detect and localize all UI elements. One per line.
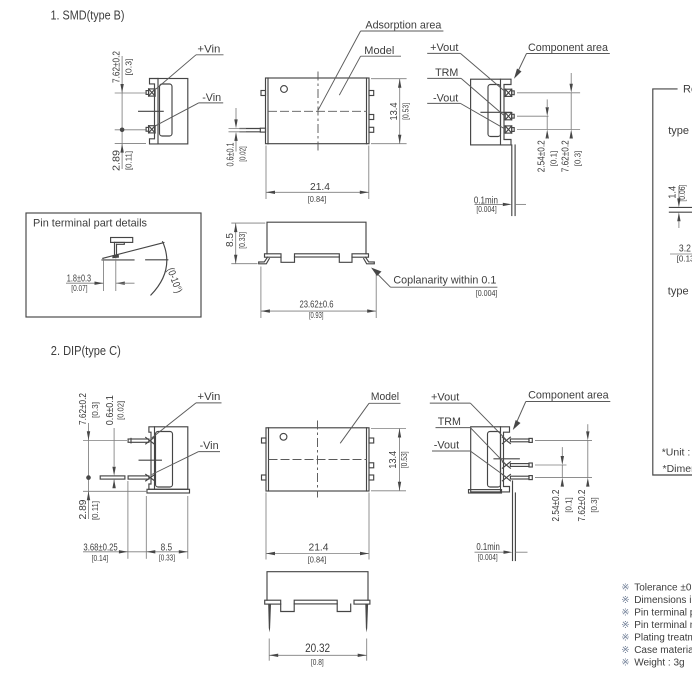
svg-text:13.4: 13.4: [387, 451, 399, 469]
svg-text:[0.004]: [0.004]: [476, 289, 498, 298]
svg-text:type B(SMD): type B(SMD): [668, 125, 692, 137]
svg-text:+Vout: +Vout: [431, 392, 459, 404]
svg-text:*Unit : mm[inch]: *Unit : mm[inch]: [662, 447, 692, 459]
pin under step: [115, 242, 125, 244]
svg-text:+Vout: +Vout: [430, 42, 458, 54]
svg-text:0.6±0.1: 0.6±0.1: [104, 395, 116, 425]
extension line row2: [115, 129, 146, 131]
dimension 0.6±0.1 pin thickness: [104, 395, 125, 488]
svg-text:21.4: 21.4: [310, 181, 330, 193]
SMD output pin 1 (+Vout): [505, 89, 514, 96]
svg-text:type C(DIP): type C(DIP): [668, 286, 692, 298]
recommended pad layout box (cropped at right edge): [653, 84, 692, 476]
svg-text:Recommended pad layout: Recommended pad layout: [683, 84, 692, 96]
left edge pin tabs: [262, 438, 267, 443]
SMD top view body: [266, 78, 370, 144]
right DIP pin: [365, 604, 368, 632]
left edge pin tab row1: [261, 91, 266, 96]
svg-text:[0.14]: [0.14]: [92, 554, 109, 563]
svg-text:[0.11]: [0.11]: [91, 501, 100, 520]
svg-text:[0.1]: [0.1]: [550, 151, 559, 167]
svg-text:-Vin: -Vin: [200, 440, 219, 452]
dimension 21.4 bottom: [266, 493, 369, 565]
dimension 0.6±0.1 pin thickness: [225, 108, 248, 167]
svg-text:1. SMD(type B): 1. SMD(type B): [51, 9, 125, 23]
DIP output pin 3 (-Vout): [502, 474, 532, 480]
svg-text:1.8±0.3: 1.8±0.3: [67, 273, 91, 285]
svg-text:2.54±0.2: 2.54±0.2: [536, 140, 548, 172]
svg-text:Model: Model: [364, 45, 394, 57]
DIP pin 2 (-Vin): [100, 474, 155, 481]
left gull-wing foot: [259, 257, 270, 264]
svg-text:2.89: 2.89: [77, 499, 89, 519]
svg-text:8.5: 8.5: [161, 541, 173, 553]
dimension 13.4 right: [371, 429, 409, 491]
dimension 21.4 bottom: [266, 146, 369, 205]
right flange pad: [354, 600, 370, 604]
center mark: [481, 111, 511, 113]
DIP center mark: [139, 459, 161, 461]
svg-text:[0.3]: [0.3]: [91, 402, 100, 418]
svg-text:0.6±0.1: 0.6±0.1: [225, 142, 237, 166]
svg-text:[0.33]: [0.33]: [238, 232, 247, 249]
dimension 23.62±0.6: [261, 267, 376, 321]
SMD side view (input side) body: [150, 79, 188, 144]
svg-text:[0.02]: [0.02]: [116, 401, 125, 420]
svg-text:-Vout: -Vout: [434, 440, 459, 452]
svg-text:-Vin: -Vin: [202, 92, 221, 104]
svg-text:2. DIP(type C): 2. DIP(type C): [51, 344, 121, 358]
pin1 index circle: [281, 86, 288, 93]
svg-text:[0.84]: [0.84]: [308, 555, 327, 564]
dimension 13.4 right: [371, 79, 411, 144]
DIP pin 1 (+Vin): [128, 437, 154, 444]
svg-text:13.4: 13.4: [388, 102, 400, 120]
pin foot: [112, 255, 119, 259]
svg-text:7.62±0.2: 7.62±0.2: [77, 393, 89, 425]
DIP output pin 1 (+Vout): [502, 437, 532, 443]
label Coplanarity within 0.1: [371, 268, 497, 299]
center mark: [494, 458, 519, 460]
svg-text:+Vin: +Vin: [197, 44, 220, 56]
DIP side view (output side) body: [469, 427, 510, 493]
dimension 7.62±0.2: [576, 424, 599, 521]
dimension line 7.62 / 2.89: [121, 56, 123, 169]
svg-text:※Pin terminal material : Cu: ※Pin terminal material : Cu: [621, 620, 692, 631]
svg-text:2.89: 2.89: [111, 150, 123, 171]
svg-text:0.1min: 0.1min: [476, 541, 500, 553]
left edge pin row2 with stub: [240, 128, 266, 132]
left DIP pin: [268, 604, 271, 632]
svg-text:[0.8]: [0.8]: [311, 658, 324, 667]
SMD output pin 3 (-Vout): [505, 126, 514, 133]
SMD output pin 2 (TRM): [505, 113, 514, 120]
svg-text:*Dimension tolerance: *Dimension tolerance: [663, 463, 692, 475]
extension lines pin rows: [535, 439, 592, 441]
svg-text:[0.3]: [0.3]: [125, 59, 134, 76]
left standoff tab: [281, 604, 295, 612]
svg-text:[0.004]: [0.004]: [476, 205, 496, 214]
pin terminal detail box: [26, 213, 201, 317]
0.1min standoff lines: [474, 145, 526, 216]
svg-text:23.62±0.6: 23.62±0.6: [300, 298, 334, 310]
svg-text:Coplanarity within 0.1: Coplanarity within 0.1: [393, 274, 496, 286]
0.1min standoff lines: [475, 481, 528, 562]
svg-text:7.62±0.2: 7.62±0.2: [560, 140, 572, 172]
svg-text:Component area: Component area: [528, 390, 609, 402]
svg-text:[0.53]: [0.53]: [402, 103, 411, 120]
vertical centerline: [317, 72, 319, 151]
dimension 3.68±0.25 and 8.5 bottom: [83, 481, 188, 563]
right edge pin tabs: [369, 438, 374, 443]
svg-text:Model: Model: [371, 391, 399, 403]
tilted seating line: [103, 243, 164, 259]
pin top plate: [111, 238, 133, 243]
center standoff plate: [295, 254, 340, 257]
svg-text:[0.07]: [0.07]: [71, 284, 87, 293]
dimension 1.8±0.3: [66, 259, 135, 293]
SMD front view body: [267, 222, 366, 254]
pin web: [114, 242, 116, 256]
svg-text:(0-10°): (0-10°): [164, 266, 184, 295]
angle arc 0-10 degrees: [151, 242, 167, 295]
svg-text:2.54±0.2: 2.54±0.2: [550, 489, 562, 521]
extension lines pin rows: [517, 92, 580, 94]
pin1 index circle: [280, 433, 287, 440]
horizontal centerline: [268, 110, 367, 112]
svg-text:※Dimensions in mm[inch]: ※Dimensions in mm[inch]: [621, 595, 692, 606]
svg-text:TRM: TRM: [438, 416, 461, 428]
extension line row1: [115, 92, 146, 94]
svg-text:8.5: 8.5: [224, 233, 236, 247]
svg-text:[0.1]: [0.1]: [564, 497, 573, 513]
right edge pin tabs: [369, 91, 374, 96]
SMD side view center mark: [139, 110, 164, 112]
extension line row1: [83, 440, 127, 442]
svg-text:1.4: 1.4: [667, 186, 679, 199]
left solder pad: [265, 254, 282, 257]
dimension 20.32: [269, 639, 367, 668]
left standoff tab: [281, 257, 295, 262]
DIP top view body: [266, 428, 369, 491]
pad layout dim 1.4: [669, 206, 692, 208]
dimension 8.5 left: [224, 223, 265, 264]
svg-text:[0.93]: [0.93]: [309, 311, 324, 320]
SMD side view (output side) body: [471, 79, 511, 145]
svg-text:[0.84]: [0.84]: [308, 195, 327, 204]
svg-text:[0.13]: [0.13]: [677, 254, 692, 263]
svg-text:※Tolerance ±0.5[0.02]: ※Tolerance ±0.5[0.02]: [621, 583, 692, 594]
horizontal centerline: [269, 459, 368, 461]
svg-text:3.2: 3.2: [679, 243, 691, 255]
svg-text:※Pin terminal pitch : 2.54[0.1: ※Pin terminal pitch : 2.54[0.1]: [621, 608, 692, 619]
svg-text:+Vin: +Vin: [197, 391, 220, 403]
svg-text:[0.3]: [0.3]: [590, 497, 599, 513]
svg-text:7.62±0.2: 7.62±0.2: [111, 51, 123, 83]
right standoff tab: [337, 604, 351, 612]
seating plane baseline: [102, 259, 134, 261]
right standoff tab: [339, 257, 352, 262]
svg-text:※Plating treatment : Sn: ※Plating treatment : Sn: [621, 633, 692, 644]
svg-text:※Case material : Resin: ※Case material : Resin: [621, 645, 692, 656]
center standoff plate: [294, 600, 337, 604]
dimension 2.54±0.2: [536, 99, 559, 172]
svg-text:Component area: Component area: [528, 42, 609, 54]
right solder pad: [352, 254, 369, 257]
svg-text:20.32: 20.32: [305, 641, 330, 655]
svg-text:※Weight : 3g: ※Weight : 3g: [621, 658, 684, 669]
DIP side view (input side) body: [147, 427, 190, 493]
svg-text:TRM: TRM: [435, 67, 458, 79]
dimension 2.54±0.2: [550, 447, 574, 521]
dimension line 7.62 / 2.89: [77, 393, 100, 520]
svg-text:3.68±0.25: 3.68±0.25: [83, 541, 117, 553]
svg-text:[0.004]: [0.004]: [478, 553, 498, 562]
svg-text:[0.3]: [0.3]: [574, 151, 583, 167]
DIP output pin 2 (TRM): [502, 462, 532, 468]
svg-text:21.4: 21.4: [309, 542, 329, 554]
svg-text:[0.53]: [0.53]: [400, 451, 409, 468]
svg-text:[0.11]: [0.11]: [125, 151, 134, 170]
dimension 7.62±0.2: [560, 73, 583, 172]
vertical centerline: [317, 421, 319, 498]
svg-text:Adsorption area: Adsorption area: [365, 20, 442, 32]
svg-text:[0.02]: [0.02]: [238, 146, 247, 162]
DIP bottom view body: [267, 572, 368, 601]
extension line bottom: [115, 143, 146, 145]
notes list: [621, 583, 692, 669]
svg-text:[0.06]: [0.06]: [678, 185, 687, 202]
svg-text:Pin terminal part details: Pin terminal part details: [33, 217, 147, 229]
svg-text:-Vout: -Vout: [433, 93, 458, 105]
left flange pad: [265, 600, 281, 604]
svg-text:[0.33]: [0.33]: [159, 553, 175, 562]
svg-text:7.62±0.2: 7.62±0.2: [576, 489, 588, 521]
SMD side view pin 2 (-Vin): [146, 126, 155, 133]
extension line bottom: [83, 490, 148, 492]
SMD side view pin 1 (+Vin): [146, 89, 155, 96]
right gull-wing foot: [364, 257, 375, 264]
